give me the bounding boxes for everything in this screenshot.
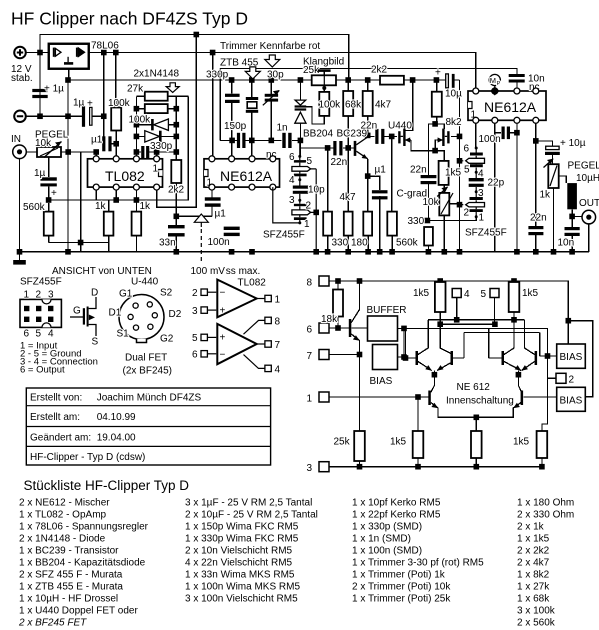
svg-text:330: 330 [408,216,425,227]
svg-text:1k5: 1k5 [413,288,430,299]
svg-text:+: + [435,68,441,79]
resistor 4k7 upper [363,91,373,116]
wire u1c from pin5 [211,187,213,216]
pin square 5 [490,289,499,298]
wire bb204 col 300.4 [299,80,301,156]
measurement point Mp [489,74,500,85]
opamp B pin6 [201,351,207,357]
resistor 1k5 bottom mid [471,431,482,458]
svg-text:8: 8 [307,278,313,289]
wire 330b col [427,227,429,252]
pin square 3 [319,462,329,472]
svg-text:2k2: 2k2 [168,185,185,196]
svg-text:33n: 33n [159,238,176,249]
svg-text:3: 3 [48,290,54,301]
capacitor 1u number2 polarized [82,106,85,127]
svg-text:1 x 180 Ohm: 1 x 180 Ohm [517,498,574,509]
box BIAS right top [557,344,586,368]
svg-text:1: 1 [479,213,485,224]
svg-text:1 x ZTB 455 E - Murata: 1 x ZTB 455 E - Murata [19,582,123,593]
svg-text:2 x 1k: 2 x 1k [517,522,545,533]
svg-text:10µ: 10µ [445,89,462,100]
svg-text:U440: U440 [388,121,412,132]
svg-text:1 x 150p Wima FKC RM5: 1 x 150p Wima FKC RM5 [185,522,299,533]
svg-text:6 = Output: 6 = Output [20,365,65,376]
wire q6 base [523,396,556,398]
wire fet1 drain up [405,80,412,130]
svg-text:68k: 68k [345,100,362,111]
svg-text:4: 4 [289,175,295,186]
box BIAS right bottom [557,387,586,411]
svg-text:5: 5 [481,289,487,300]
trimmer 10k cgrad [439,193,449,216]
svg-text:2x1N4148: 2x1N4148 [134,69,180,80]
svg-text:100 mV ss max.: 100 mV ss max. [191,266,261,277]
svg-text:−: − [220,350,226,361]
resistor 560k [44,212,54,236]
wire col 212.6 V+ to NE612A pin8 [212,53,214,159]
svg-text:22p: 22p [488,178,505,189]
svg-text:100n: 100n [479,134,501,145]
jack OUT [582,210,596,224]
svg-text:1k: 1k [95,201,107,212]
svg-text:100k: 100k [319,100,342,111]
svg-text:1k5: 1k5 [390,437,407,448]
resistor 2k2 vert [171,160,181,183]
pin square 4 [452,289,461,298]
wire base row y=147.9 [300,147,354,149]
svg-text:Erstellt von:: Erstellt von: [30,393,82,404]
svg-text:10k: 10k [35,138,52,149]
svg-text:1n: 1n [277,123,288,134]
svg-text:Geändert am:: Geändert am: [30,433,91,444]
wire emitter join right [504,362,535,393]
svg-text:(2x BF245): (2x BF245) [123,366,172,377]
svg-text:1 x 27k: 1 x 27k [517,582,550,593]
wire emitter join left [418,362,453,393]
svg-text:2: 2 [464,208,470,219]
svg-text:1 x 1n (SMD): 1 x 1n (SMD) [352,534,411,545]
capacitor 100n right [502,127,505,140]
wire NE612A pin4 filter [273,187,300,223]
svg-text:25k: 25k [303,65,320,76]
resistor 180 emitter [363,212,372,236]
svg-text:4k7: 4k7 [375,100,392,111]
wire buffer out riser [398,328,405,357]
diode D1 1N4148 left [154,119,169,130]
svg-text:BIAS: BIAS [560,352,583,363]
svg-text:S1: S1 [117,329,130,340]
wire klang pot wiper [323,71,325,92]
wire ground bus y=80 [68,79,460,81]
svg-text:TL082: TL082 [105,168,145,184]
wire 68k bias col [347,80,349,252]
svg-text:4: 4 [464,289,470,300]
junction dots ground rail [17,249,23,255]
opamp B triangle [217,324,256,364]
wire R bias line [404,328,557,356]
wire in jack down [19,158,21,260]
svg-text:3 x 100k: 3 x 100k [517,606,556,617]
transistor U440 fet1 [398,131,400,143]
wire Q pin5 line [440,298,495,325]
wire NE612right pin6 to filter [475,120,477,148]
svg-text:5: 5 [192,333,198,344]
svg-text:BB204: BB204 [303,129,333,140]
svg-text:1k: 1k [540,190,552,201]
svg-text:1 x TL082 - OpAmp: 1 x TL082 - OpAmp [19,510,107,521]
svg-text:1 x 10pf Kerko RM5: 1 x 10pf Kerko RM5 [352,498,441,509]
svg-text:1 x 100n Wima MKS RM5: 1 x 100n Wima MKS RM5 [185,582,300,593]
opamp B pin4 vminus [265,365,271,371]
wire NE612right pin2 col [535,120,537,251]
resistor 68k [343,91,353,116]
resistor 100k klang [319,92,329,116]
parts list column3 [352,498,484,605]
filter SFZ455F right [460,144,507,239]
resistor 2k2 horizontal [380,76,404,85]
svg-text:100k: 100k [108,98,131,109]
resistor 1k5 source [439,161,449,185]
arrow marker ztb [245,67,260,79]
filter SFZ455F left [263,140,325,251]
svg-text:1 x 22pf Kerko RM5: 1 x 22pf Kerko RM5 [352,510,441,521]
opamp B pin5 [201,334,207,340]
svg-text:SFZ455F: SFZ455F [20,277,62,288]
svg-text:S: S [92,337,99,348]
svg-text:BIAS: BIAS [370,376,393,387]
opamp A pin3 [201,307,207,313]
potentiometer PEGEL 10k [37,147,61,157]
svg-text:1 x 68k: 1 x 68k [517,594,550,605]
wire col B x=196.3 [157,35,197,208]
capacitor 330p ztb [225,94,240,97]
svg-text:560k: 560k [23,202,46,213]
pin square 2 [556,373,566,383]
svg-text:1 x 78L06 - Spannungsregler: 1 x 78L06 - Spannungsregler [19,522,149,533]
wire q4 collector riser [525,320,535,355]
wire 10n drop to NE612A right pin3 [516,80,518,91]
svg-text:−: − [220,288,226,299]
wire 1k-2 bottom [135,236,137,252]
svg-text:2 x 10n Vielschicht RM5: 2 x 10n Vielschicht RM5 [185,546,293,557]
wire ztb col 231.6 [231,80,233,159]
svg-text:1 x 330p Wima FKC RM5: 1 x 330p Wima FKC RM5 [185,534,299,545]
svg-text:Trimmer Kennfarbe rot: Trimmer Kennfarbe rot [220,41,320,52]
svg-text:+: + [220,306,226,317]
wire buffer emitter col [351,334,359,431]
svg-text:NE612A: NE612A [484,99,537,115]
svg-text:1k5: 1k5 [445,168,462,179]
svg-text:3: 3 [192,306,198,317]
wire pin7 [329,354,360,356]
svg-text:1 x 100n (SMD): 1 x 100n (SMD) [352,546,422,557]
capacitor u1 bypass [102,136,105,151]
wire out jack down [588,224,590,252]
svg-text:G2: G2 [160,334,174,345]
wire 1u to wire200 [48,203,50,243]
svg-text:2 x 2k2: 2 x 2k2 [517,546,550,557]
svg-text:6: 6 [307,325,313,336]
potentiometer Klangbild 25k [312,75,336,85]
svg-text:Erstellt am:: Erstellt am: [30,412,80,423]
svg-text:4: 4 [275,365,281,376]
svg-text:5: 5 [307,156,313,167]
junction dots innen [335,278,571,469]
capacitor u1 pin1 left [205,197,221,200]
svg-text:1µ: 1µ [73,98,85,109]
arrow marker 30p [265,55,280,67]
svg-text:2k2: 2k2 [371,65,388,76]
svg-text:+: + [87,99,93,110]
wire cgrad col 428.4 [428,124,435,221]
wire ztb col 251.8 [251,80,253,159]
svg-text:22n: 22n [410,165,427,176]
wire P pin4 line [428,298,524,320]
wire col x=115.8 100k [115,53,117,159]
capacitor 22n cgrad [421,175,437,178]
svg-text:100n: 100n [208,237,230,248]
svg-text:3 x 1µF - 25 V RM 2,5 Tantal: 3 x 1µF - 25 V RM 2,5 Tantal [185,498,312,509]
wire q2 collector riser [440,324,453,354]
wire emitter col 180 [367,159,369,252]
svg-text:D: D [91,288,98,299]
wire pin1 [329,397,428,431]
transistor q5 [428,391,431,406]
svg-text:+: + [220,333,226,344]
resistor 1k5 bottom left [413,431,424,458]
wire y=216.3 arrow node [176,215,212,217]
terminal plus 12V [14,47,26,59]
svg-text:10k: 10k [423,197,440,208]
capacitor 1n [282,133,285,148]
svg-text:3: 3 [478,188,484,199]
svg-text:HF Clipper nach DF4ZS Typ D: HF Clipper nach DF4ZS Typ D [11,9,248,29]
opamp A triangle [217,280,256,318]
opamp A pin1 out [265,295,271,301]
svg-text:1 x Trimmer (Poti) 1k: 1 x Trimmer (Poti) 1k [352,570,446,581]
svg-text:+ 10µ: + 10µ [560,138,586,149]
svg-text:22n: 22n [331,157,348,168]
svg-text:U-440: U-440 [131,277,159,288]
wire ground rail [20,251,589,253]
wire filter1 out row y=220 [428,217,476,221]
wire q3 collector riser [504,320,514,355]
wire col x=103.75 bypass [103,53,105,137]
transistor buffer [349,319,352,337]
wire 4k7a col collector [367,80,369,135]
svg-text:2: 2 [569,375,575,386]
wire fet2 gate stub [451,135,460,137]
pin square 6 [319,323,329,333]
arrow marker 1N4148 [166,83,179,93]
jack IN [13,145,27,159]
pin square 8 [319,276,329,286]
svg-text:6: 6 [289,152,295,163]
wire klangbild line y=68.5 [220,69,517,75]
capacitor 1u number1 [32,89,47,92]
capacitor 100n left [224,227,240,230]
pin square 1 [319,392,329,402]
svg-text:7: 7 [275,340,281,351]
terminal minus [14,110,26,122]
arrow signal marker [194,214,208,222]
capacitor 10n top [509,74,525,77]
resistor 25k [354,431,365,461]
wire col 459.5 agc [459,80,461,252]
wire fet2 drain 8k2 [435,80,444,129]
wire 10ub link [536,141,553,164]
svg-text:HF-Clipper - Typ D (cdsw): HF-Clipper - Typ D (cdsw) [30,452,145,463]
svg-text:2 x Trimmer (Poti) 10k: 2 x Trimmer (Poti) 10k [352,582,451,593]
IC NE612A left [204,159,280,187]
wire q2 base [453,357,464,359]
svg-text:BIAS: BIAS [560,396,583,407]
resistor 1k5 bottom right [537,431,548,458]
svg-text:PEGEL: PEGEL [568,161,599,172]
wire q3 base [489,357,502,359]
transistor q6 [521,391,524,406]
wire 2k2 down 33n [175,183,177,252]
svg-text:2 x BF245 FET: 2 x BF245 FET [18,618,87,629]
svg-text:TL082: TL082 [238,278,267,289]
wire 560kb col [391,136,393,251]
svg-text:Stückliste HF-Clipper Typ D: Stückliste HF-Clipper Typ D [24,478,190,493]
svg-text:1 x BC239 - Transistor: 1 x BC239 - Transistor [19,546,119,557]
pin square 7 [319,350,329,360]
svg-text:22n: 22n [361,121,378,132]
svg-text:1: 1 [153,164,159,175]
svg-text:330p: 330p [206,70,229,81]
junction dots top schematic [17,32,575,255]
svg-text:19.04.00: 19.04.00 [97,433,136,444]
resonator ZTB455 [246,97,258,100]
wire pin6 net [329,327,368,329]
svg-text:330: 330 [332,238,349,249]
svg-text:2 x NE612 - Mischer: 2 x NE612 - Mischer [19,498,110,509]
capacitor 330p feedback [141,146,144,159]
varactor BB204 [295,100,306,105]
capacitor 22n fet gate [375,129,378,144]
wire q1 base [406,328,416,358]
resistor 4k7 base [344,212,353,236]
svg-text:7: 7 [307,351,313,362]
svg-text:10n: 10n [558,238,575,249]
transistor q3 [502,351,505,365]
svg-text:10p: 10p [308,185,325,196]
wire fet source row y=150.6 [411,140,444,161]
wire 18k col [337,281,339,328]
svg-text:1k: 1k [140,201,152,212]
svg-text:1: 1 [275,295,281,306]
svg-text:8: 8 [275,317,281,328]
wire pegel pot out [554,176,567,252]
svg-text:18k: 18k [321,314,338,325]
resistor 8k2 [432,92,442,117]
svg-text:1k5: 1k5 [522,288,539,299]
resistor 330 base [323,212,332,236]
svg-text:BUFFER: BUFFER [367,305,407,316]
svg-text:S2: S2 [160,288,173,299]
svg-text:4 x 22n Vielschicht RM5: 4 x 22n Vielschicht RM5 [185,558,293,569]
parts list column4 [517,498,574,629]
wire diode ladder left rail [136,96,151,159]
svg-text:2 x 4k7: 2 x 4k7 [517,558,550,569]
wire y=242.5 [49,152,109,252]
svg-text:2: 2 [306,201,312,212]
opamp B pin8 vplus [265,317,271,323]
NE612 internal wires [329,281,593,467]
resistor 1k5 top left [435,282,446,312]
wire u1 cap link y=143.75 [110,143,116,145]
capacitor 10n out [565,227,580,230]
capacitor 150p [237,133,240,148]
svg-text:1 x 10µH - HF Drossel: 1 x 10µH - HF Drossel [19,594,118,605]
wire 330a col [327,148,329,252]
svg-text:Dual FET: Dual FET [125,353,167,364]
svg-text:25k: 25k [334,437,351,448]
box BUFFER [368,316,398,341]
wire S cross line [464,328,540,358]
svg-text:stab.: stab. [11,73,33,84]
wire q5 q6 emitters bottom [431,403,521,432]
svg-text:D2: D2 [169,309,182,320]
resistor 100k mid [145,104,168,113]
svg-text:5: 5 [36,329,42,340]
wire trimmer col 271.3 [270,80,272,140]
svg-text:2 x SFZ 455 F - Murata: 2 x SFZ 455 F - Murata [19,570,123,581]
svg-text:10µH: 10µH [576,173,599,184]
svg-text:1 x 1k5: 1 x 1k5 [517,534,550,545]
wire pot tap down to 1u [48,157,50,198]
wire NE612right pin3 col [516,120,518,251]
opamp A pin2 [201,289,207,295]
wire cap row y=140.4 [220,69,300,141]
svg-text:04.10.99: 04.10.99 [97,412,136,423]
resistor 27k [145,92,168,101]
wire rail3 [329,458,542,467]
svg-text:Innenschaltung: Innenschaltung [446,396,514,407]
transistor FET symbol single [70,297,96,336]
svg-text:2 x 560k: 2 x 560k [517,618,556,629]
wire ground column x=68 [67,69,70,252]
transistor U440 fet2 [442,129,444,146]
svg-text:1 x Trimmer (Poti) 25k: 1 x Trimmer (Poti) 25k [352,594,451,605]
svg-text:SFZ455F: SFZ455F [263,230,305,241]
svg-text:1 x 8k2: 1 x 8k2 [517,570,550,581]
capacitor 1u pot [40,177,56,180]
wire col x=40 plus terminal [26,53,49,117]
svg-text:330p: 330p [150,141,173,152]
svg-text:4: 4 [478,169,484,180]
svg-text:180: 180 [351,238,368,249]
wire 1k-1 jog [108,200,110,252]
wire diode ladder right rail [161,96,188,160]
svg-text:NE 612: NE 612 [457,382,491,393]
svg-text:22n: 22n [530,213,547,224]
wire 22nb row y=136.4 [368,135,397,136]
svg-text:SFZ455F: SFZ455F [465,228,507,239]
wire y=200 TL082 lower [49,96,189,211]
resistor 560k fet [387,212,397,236]
resistor 1k second [132,212,142,236]
box BIAS left [373,345,398,370]
svg-text:2: 2 [36,290,42,301]
ground symbol IN [13,260,26,265]
IC NE612A right [468,91,546,120]
svg-text:3: 3 [307,463,313,474]
wire V+ rail from 78L06 [89,53,476,92]
